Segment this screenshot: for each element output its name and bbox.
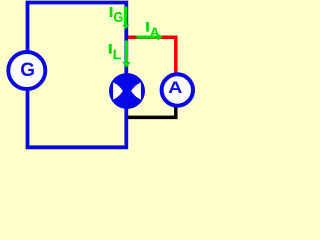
- svg-text:G: G: [114, 9, 124, 26]
- svg-text:A: A: [168, 77, 182, 96]
- svg-text:G: G: [20, 60, 35, 81]
- svg-text:A: A: [150, 24, 160, 39]
- svg-text:L: L: [113, 46, 122, 62]
